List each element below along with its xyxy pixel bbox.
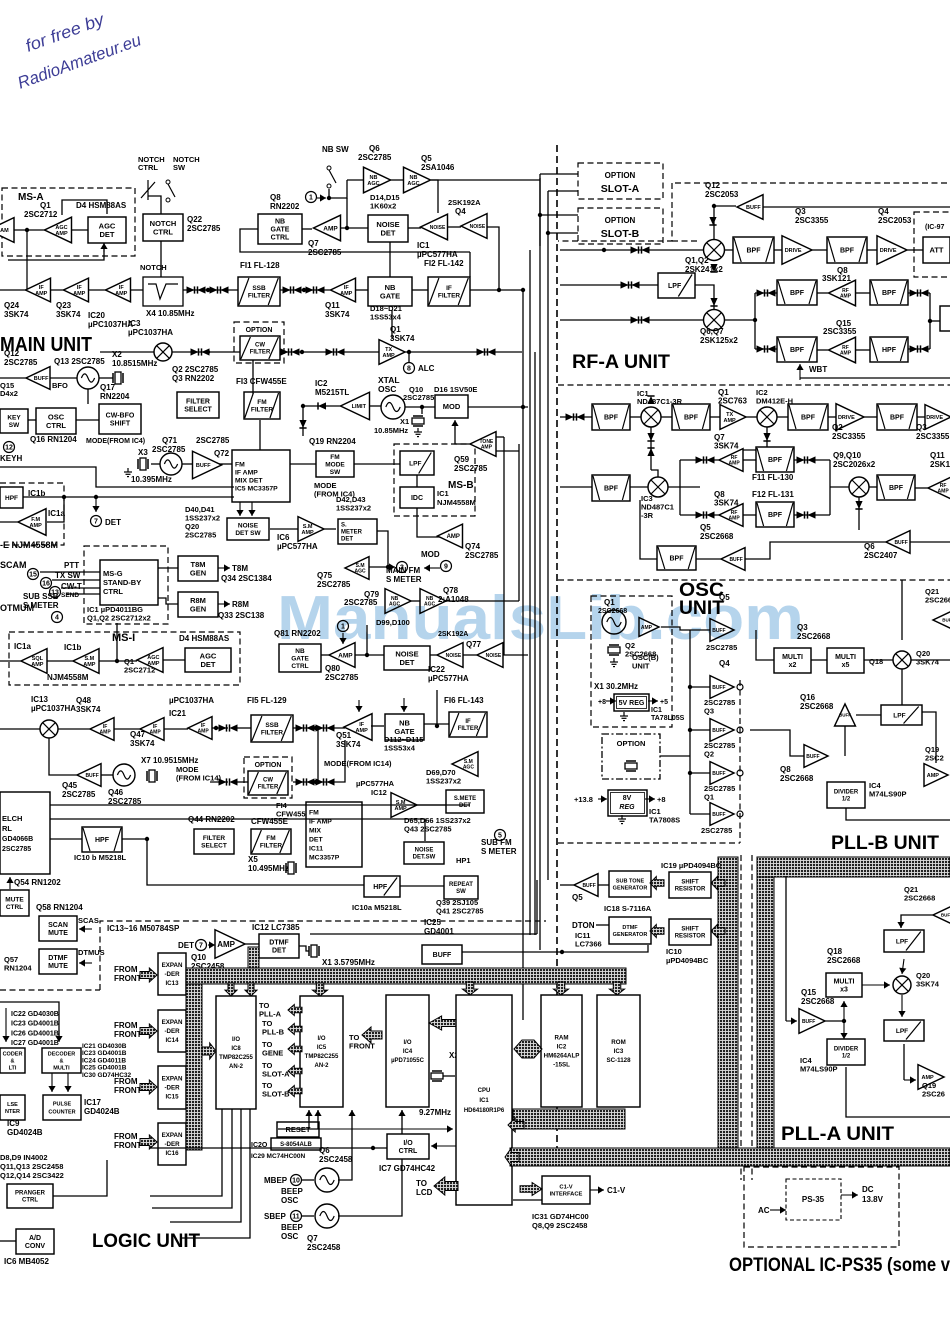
svg-text:TO: TO <box>416 1179 427 1188</box>
wire ptt in <box>40 571 100 573</box>
amp BUFF Q5 rfa <box>721 548 745 571</box>
svg-text:1SS237x2: 1SS237x2 <box>426 777 461 786</box>
filter BPF rf2 <box>827 237 867 263</box>
svg-text:S.: S. <box>341 523 347 529</box>
svg-text:(IC-97: (IC-97 <box>925 224 945 231</box>
svg-text:BUFF: BUFF <box>34 376 49 382</box>
svg-text:Q2 2SC2785: Q2 2SC2785 <box>172 365 219 374</box>
svg-text:Q43 2SC2785: Q43 2SC2785 <box>404 825 452 834</box>
op-amp AGC AMP <box>45 217 72 243</box>
wire slot feeds4 <box>548 232 578 234</box>
svg-text:AMP: AMP <box>383 353 396 359</box>
arrow buff multi <box>840 1001 847 1021</box>
NOISE DET SW box <box>227 518 269 540</box>
node 8 ALC <box>404 363 415 374</box>
svg-text:Q12: Q12 <box>705 181 721 190</box>
svg-text:UNIT: UNIT <box>632 662 650 671</box>
svg-text:µPC1037HA: µPC1037HA <box>128 328 173 337</box>
wire fm feedback <box>0 467 234 487</box>
diode pair tx row right d1 <box>477 348 485 355</box>
svg-text:&: & <box>11 1058 15 1064</box>
svg-text:GEN: GEN <box>190 604 206 613</box>
svg-text:2SC2785: 2SC2785 <box>465 551 499 560</box>
svg-text:-DER: -DER <box>164 1141 180 1148</box>
wire buff col in2 <box>690 686 710 688</box>
svg-text:1K60x2: 1K60x2 <box>370 202 396 211</box>
junction dots IF strip <box>206 288 210 292</box>
svg-text:CPU: CPU <box>478 1088 491 1094</box>
svg-text:DET.SW: DET.SW <box>413 855 436 861</box>
svg-text:IC4: IC4 <box>403 1049 413 1055</box>
gray bus arrow into IC5 <box>313 983 328 996</box>
wire det vert <box>536 880 538 934</box>
svg-text:AMP: AMP <box>83 662 96 668</box>
arrow into decoder1 <box>2 1008 9 1042</box>
svg-text:Q8,Q9 2SC2458: Q8,Q9 2SC2458 <box>532 1221 587 1230</box>
svg-text:MS-I: MS-I <box>112 632 135 644</box>
PLLB left dashed vert <box>739 680 741 843</box>
arrow to 5v <box>606 697 616 704</box>
svg-text:9.27MHz: 9.27MHz <box>419 1108 451 1117</box>
svg-text:1SS237x2: 1SS237x2 <box>336 504 371 513</box>
wire rfa row1d <box>710 416 720 418</box>
amp BUFF Q6 rfa <box>886 531 910 554</box>
OPTION SLOT-A dashed box <box>578 163 663 199</box>
wire mixer row <box>100 351 379 353</box>
svg-text:Q1: Q1 <box>40 201 51 210</box>
wire amp noise <box>340 227 368 229</box>
svg-text:Q75: Q75 <box>317 571 333 580</box>
svg-text:PULSE: PULSE <box>53 1101 72 1107</box>
wire buff in <box>745 542 886 559</box>
svg-text:SHIFT: SHIFT <box>681 927 699 933</box>
diode ic1 dn2 <box>647 448 654 456</box>
svg-text:SBEP: SBEP <box>264 1212 286 1221</box>
svg-text:10.395MHz: 10.395MHz <box>131 475 172 484</box>
wire q5 right down <box>469 252 471 277</box>
svg-text:LPF: LPF <box>896 1028 908 1035</box>
wire limit osc <box>370 405 381 407</box>
diode pair mix2 d1 <box>281 348 289 355</box>
amp S.M AMP IC6 <box>298 517 324 542</box>
DECODER MULTI box partial <box>0 1048 25 1073</box>
junction dot mod <box>420 405 424 409</box>
wire fmmode lpf <box>354 463 400 465</box>
svg-text:µPC577HA: µPC577HA <box>417 250 458 259</box>
diode ic1 dn1 <box>647 433 654 441</box>
svg-text:AMP: AMP <box>150 730 162 736</box>
svg-text:FI6 FL-143: FI6 FL-143 <box>444 696 484 705</box>
svg-text:CTRL: CTRL <box>22 1198 38 1204</box>
crystal X1 <box>412 416 424 426</box>
wire lpf <box>560 284 658 286</box>
mixer IC2 rfa <box>757 407 777 427</box>
diode left vert <box>299 420 306 428</box>
PRANGER CTRL box <box>7 1184 53 1208</box>
svg-text:CTRL: CTRL <box>103 587 123 596</box>
diode pair rf r1 d2 <box>921 289 929 296</box>
svg-text:OSC: OSC <box>48 412 65 421</box>
wire subif f <box>236 727 251 729</box>
wire msi up <box>116 623 118 661</box>
svg-text:5V REG: 5V REG <box>619 700 645 707</box>
amp NOISE IC1 <box>421 214 448 240</box>
wire msi row <box>0 660 21 662</box>
svg-text:+5: +5 <box>660 699 668 706</box>
amp BUFF Q8 pllb <box>804 745 828 768</box>
svg-text:FILTER: FILTER <box>248 293 271 300</box>
svg-text:FM: FM <box>266 835 275 842</box>
svg-text:Q74: Q74 <box>465 542 481 551</box>
wire smamp2 <box>417 804 446 806</box>
svg-text:BUFF: BUFF <box>729 557 742 563</box>
svg-text:Q1: Q1 <box>704 793 714 802</box>
node 3 <box>397 562 408 573</box>
diode limit in <box>318 402 326 409</box>
svg-text:2SC2785: 2SC2785 <box>187 224 221 233</box>
diode pair mix2 d2 <box>292 348 300 355</box>
wire fm amp out <box>0 521 18 523</box>
crystal option <box>625 761 637 771</box>
filter BPF rfa7 <box>657 546 696 570</box>
SUB TONE GENERATOR box <box>609 871 651 897</box>
wire agc det up <box>62 200 107 215</box>
mixer IC1 rfa <box>641 407 661 427</box>
svg-text:IC26 GD4001B: IC26 GD4001B <box>11 1030 59 1037</box>
svg-text:3SK74: 3SK74 <box>130 739 155 748</box>
filter IF FILTER FI2 <box>428 277 470 306</box>
filter BPF rfa4 <box>877 404 917 430</box>
wire ic2 lo <box>740 427 767 450</box>
svg-text:3SK74: 3SK74 <box>4 310 29 319</box>
arrow into buff plla <box>786 1017 797 1024</box>
arrow tone mod <box>451 420 458 430</box>
svg-text:Q59: Q59 <box>454 455 470 464</box>
svg-text:BPF: BPF <box>747 247 762 254</box>
svg-text:1/2: 1/2 <box>842 797 851 803</box>
svg-text:C1-V: C1-V <box>559 1185 572 1191</box>
junction dot noise wire <box>497 288 501 292</box>
oscillator OSC B Q1 <box>602 610 626 634</box>
svg-text:Q16 RN1204: Q16 RN1204 <box>30 435 77 444</box>
wire fi3 up <box>252 360 254 394</box>
arrow T8M <box>218 564 230 571</box>
DIVIDER 1/2 box <box>827 782 865 808</box>
OPTION crystal dashed box <box>602 734 660 779</box>
wire subif c <box>114 728 140 730</box>
svg-text:DC: DC <box>862 1185 874 1194</box>
svg-text:Q34 2SC1384: Q34 2SC1384 <box>221 574 272 583</box>
amp Q10 det <box>215 930 245 959</box>
OSC CTRL box <box>36 408 76 434</box>
svg-text:MULTI: MULTI <box>53 1065 70 1071</box>
svg-text:FROM: FROM <box>114 1021 138 1030</box>
svg-text:OSC: OSC <box>281 1196 299 1205</box>
diode pair D notch1 d1 <box>187 286 195 293</box>
gray arrow shift2 frombus <box>711 925 725 938</box>
svg-text:IC13~16 M50784SP: IC13~16 M50784SP <box>107 924 180 933</box>
svg-text:SUB TONE: SUB TONE <box>616 879 645 885</box>
wire buff div plla <box>825 1020 844 1022</box>
svg-text:T8M: T8M <box>232 564 248 573</box>
wire subif i <box>424 723 449 725</box>
ROM IC3 box <box>597 995 640 1107</box>
MULTI x2 box <box>774 648 811 673</box>
svg-text:-3R: -3R <box>641 511 654 520</box>
gray bus expander vertical <box>186 968 202 1150</box>
DTMF MUTE box <box>39 949 77 974</box>
arrow mix lpf2 <box>898 995 905 1017</box>
wire osc mod <box>405 406 435 408</box>
svg-text:Q17: Q17 <box>100 383 116 392</box>
svg-text:1: 1 <box>309 195 313 202</box>
filter BPF rfa1 <box>592 404 630 430</box>
amp S.M AGC Q75 <box>345 557 369 580</box>
svg-text:BPF: BPF <box>604 485 619 492</box>
svg-text:NB: NB <box>385 283 396 292</box>
svg-text:HPF: HPF <box>373 884 388 891</box>
wire rfa row1g <box>828 416 836 418</box>
wire rfa row2 <box>560 486 592 488</box>
svg-text:2SC2712: 2SC2712 <box>24 210 58 219</box>
svg-text:D8,D9 IN4002: D8,D9 IN4002 <box>0 1153 48 1162</box>
crystal X2 <box>113 372 123 384</box>
gray arrow to slota <box>288 1066 302 1077</box>
diode pair fi5 r2 d1 <box>316 724 324 731</box>
svg-text:IC5 MC3357P: IC5 MC3357P <box>235 485 278 492</box>
svg-text:AM: AM <box>0 228 9 234</box>
diode pair mix3 d1 <box>326 348 334 355</box>
diode pair f11 l d1 <box>696 456 704 463</box>
svg-text:AMP: AMP <box>302 530 315 536</box>
svg-text:INTERFACE: INTERFACE <box>550 1192 583 1198</box>
svg-text:Q1,Q2: Q1,Q2 <box>685 256 709 265</box>
svg-text:2SC2668: 2SC2668 <box>904 894 935 903</box>
svg-text:DET: DET <box>309 836 323 843</box>
svg-text:FI3 CFW455E: FI3 CFW455E <box>236 377 287 386</box>
svg-text:Q9,Q10: Q9,Q10 <box>833 451 862 460</box>
svg-text:IC1: IC1 <box>417 241 430 250</box>
amp LIMIT IC2 <box>341 392 370 420</box>
op-amp SQL AMP IC1a <box>21 649 47 674</box>
svg-text:13.8V: 13.8V <box>862 1195 884 1204</box>
svg-text:TMP82C255: TMP82C255 <box>305 1054 339 1060</box>
gray bus dtmf-det connector <box>248 947 259 968</box>
oscillator BEEP Q6 <box>315 1168 339 1192</box>
gray bus arrow into RAM <box>554 982 569 995</box>
svg-text:BUFF: BUFF <box>802 1019 815 1025</box>
wire tx up <box>391 310 393 339</box>
svg-text:BPF: BPF <box>890 414 905 421</box>
NOTCH CTRL box <box>143 214 183 241</box>
switch NOTCH SW <box>166 180 175 202</box>
wire send in <box>66 593 100 595</box>
svg-text:FM: FM <box>330 454 339 461</box>
arrow circled1 to sw <box>317 194 326 201</box>
wire fi6 drop <box>436 690 438 726</box>
svg-text:IC25: IC25 <box>424 918 441 927</box>
wire f11b <box>743 459 756 461</box>
wire under IC8 a <box>150 1109 222 1196</box>
svg-text:T8M: T8M <box>191 560 206 569</box>
wire premix <box>560 249 703 251</box>
wire slot feeds2 <box>548 190 578 192</box>
svg-text:EXPAN: EXPAN <box>162 962 183 969</box>
wire long vert C <box>529 250 531 935</box>
svg-text:2SC763: 2SC763 <box>718 397 747 406</box>
wire IF strip row5 <box>412 289 428 291</box>
wire sbep <box>302 1215 314 1217</box>
svg-text:2SA1046: 2SA1046 <box>421 163 455 172</box>
wire pranger <box>53 1160 107 1196</box>
BUFF box logic <box>422 945 462 964</box>
svg-text:10.8515MHz: 10.8515MHz <box>112 359 157 368</box>
svg-text:8: 8 <box>407 366 411 373</box>
svg-text:BPF: BPF <box>768 512 783 519</box>
svg-text:MIX: MIX <box>309 827 322 834</box>
svg-text:2SC2785: 2SC2785 <box>62 790 96 799</box>
svg-text:-15SL: -15SL <box>553 1062 570 1069</box>
svg-text:NOISE: NOISE <box>486 653 502 659</box>
svg-text:GD4066B: GD4066B <box>2 836 33 843</box>
svg-text:SW: SW <box>9 422 20 429</box>
diode pair D notch2 d1 <box>210 286 218 293</box>
svg-text:RF-A UNIT: RF-A UNIT <box>572 352 670 373</box>
DIVIDER 1/2 box plla <box>827 1039 865 1065</box>
diode pair fi4 r2 d2 <box>327 778 335 785</box>
wire d99 drop <box>366 625 368 655</box>
wire vert x540 <box>539 178 541 246</box>
MULTI x3 box <box>826 973 862 997</box>
wire top NB row <box>431 179 540 181</box>
svg-text:I/O: I/O <box>317 1036 325 1042</box>
svg-text:AMP: AMP <box>55 231 68 237</box>
svg-text:NOISE: NOISE <box>415 848 434 854</box>
arrow ic5 noisedet b <box>248 502 255 516</box>
wire bpf up <box>640 500 657 559</box>
wire xtal bfo <box>99 377 113 379</box>
diode mixer up <box>709 217 716 225</box>
amp IF IC20 <box>106 278 131 302</box>
wire subif row <box>0 728 40 730</box>
svg-text:Q6: Q6 <box>369 144 380 153</box>
gray bus PLL-B horizontal <box>757 857 950 877</box>
svg-text:X7 10.9515MHz: X7 10.9515MHz <box>141 756 198 765</box>
junction dot msa <box>25 228 29 232</box>
op-amp F.M AMP IC1a <box>18 509 46 536</box>
svg-text:HP1: HP1 <box>456 856 471 865</box>
RAM IC2 box <box>541 995 582 1107</box>
svg-text:BUFF: BUFF <box>894 540 907 546</box>
svg-text:LC7366: LC7366 <box>575 940 602 949</box>
svg-text:FRONT: FRONT <box>114 1141 142 1150</box>
svg-text:DTON: DTON <box>572 921 595 930</box>
svg-text:Q16: Q16 <box>800 693 816 702</box>
dashed unit boundary vertical <box>556 145 558 1150</box>
amp BUFF Q12 <box>26 367 50 390</box>
amp BUFF Q16 <box>835 704 856 726</box>
svg-text:D16 1SV50E: D16 1SV50E <box>434 385 477 394</box>
MS-I dashed box <box>9 632 240 685</box>
svg-text:-DER: -DER <box>164 1085 180 1092</box>
svg-text:DET: DET <box>105 518 121 527</box>
svg-text:SC-1128: SC-1128 <box>606 1057 631 1064</box>
svg-text:AMP: AMP <box>840 294 852 300</box>
svg-text:GENERATOR: GENERATOR <box>613 932 648 938</box>
svg-text:2SC26: 2SC26 <box>922 1090 945 1099</box>
diode pair f12 l d1 <box>696 511 704 518</box>
filter BPF rfa2 <box>672 404 710 430</box>
svg-text:NOISE: NOISE <box>430 225 446 231</box>
svg-text:AMP: AMP <box>938 489 950 495</box>
wire nb2 <box>321 654 329 656</box>
wire to decoder2 <box>0 1002 59 1036</box>
gray arrow from front 1 <box>140 968 157 982</box>
svg-text:Q7: Q7 <box>308 239 319 248</box>
diode pair ssb1 d1 <box>283 286 291 293</box>
amp IF IC21 <box>188 717 212 740</box>
svg-text:BUFF: BUFF <box>941 913 950 918</box>
svg-text:µPC1037HA: µPC1037HA <box>88 320 133 329</box>
svg-text:2SC2785: 2SC2785 <box>403 393 434 402</box>
gray logic top bus horizontal <box>186 968 626 984</box>
wire rfa row2c <box>668 486 700 488</box>
node 10 mbep <box>291 1175 302 1186</box>
amp RF AMP Q7 rfa <box>719 449 743 472</box>
svg-text:2SC2785: 2SC2785 <box>454 464 488 473</box>
wire subif h <box>371 725 384 727</box>
wire left col1 <box>26 230 28 290</box>
REPEAT SW box <box>444 876 478 899</box>
svg-text:X1 30.2MHz: X1 30.2MHz <box>594 682 638 691</box>
arrow up ic5 a <box>348 1110 355 1120</box>
gray arrow to slotb <box>288 1086 302 1097</box>
svg-text:BUFF: BUFF <box>806 754 819 760</box>
wire rf chain1 <box>725 249 733 251</box>
svg-text:CTRL: CTRL <box>46 421 66 430</box>
C1-V INTERFACE box <box>542 1176 590 1204</box>
svg-text:D4x2: D4x2 <box>0 389 18 398</box>
PULSE COUNTER box <box>43 1095 81 1120</box>
amp DRIVE Q3 <box>782 236 812 265</box>
svg-text:SSB: SSB <box>265 722 279 729</box>
svg-text:Q5: Q5 <box>421 154 432 163</box>
svg-text:Q71: Q71 <box>162 436 178 445</box>
svg-text:BPF: BPF <box>790 347 805 354</box>
EXPANDER IC15 box <box>158 1066 186 1109</box>
arrow into lpf1 <box>897 920 904 928</box>
svg-text:SELECT: SELECT <box>201 843 227 850</box>
svg-text:DRIVE: DRIVE <box>926 415 943 421</box>
junction dot mod right <box>521 405 525 409</box>
svg-text:DIVIDER: DIVIDER <box>834 790 859 796</box>
amp RF AMP q15 <box>829 337 856 363</box>
svg-text:2SC2668: 2SC2668 <box>925 596 950 605</box>
arrow multi mix <box>862 981 890 988</box>
amp IF Q48 <box>90 718 114 741</box>
svg-text:+8: +8 <box>657 795 666 804</box>
diode q9 dn <box>855 501 862 509</box>
gray arrow cpu to ic4 <box>429 1016 457 1030</box>
gray data bus horizontal <box>510 1148 950 1166</box>
wire hpf row <box>23 496 234 498</box>
crystal X7 <box>147 770 157 782</box>
svg-text:EXPAN: EXPAN <box>162 1132 183 1139</box>
wire wbt row <box>800 377 950 379</box>
svg-text:4: 4 <box>55 615 59 622</box>
wire IF strip row3 <box>280 289 330 291</box>
svg-text:MUTE: MUTE <box>48 963 68 970</box>
